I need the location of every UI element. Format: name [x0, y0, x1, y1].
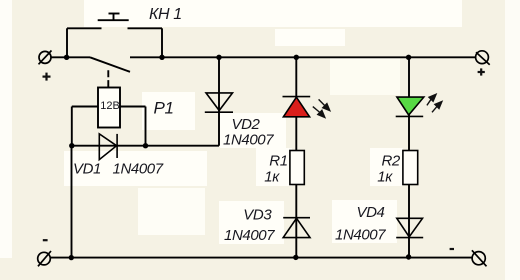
svg-text:VD3: VD3: [243, 206, 272, 223]
svg-text:R2: R2: [382, 152, 401, 169]
svg-text:1N4007: 1N4007: [224, 227, 275, 244]
svg-text:VD2: VD2: [232, 116, 261, 133]
svg-text:VD4: VD4: [357, 204, 385, 221]
svg-text:1N4007: 1N4007: [223, 132, 274, 149]
svg-text:VD1: VD1: [73, 161, 101, 178]
svg-text:1к: 1к: [264, 168, 280, 185]
svg-text:R1: R1: [269, 152, 287, 169]
svg-text:КН 1: КН 1: [149, 6, 182, 23]
svg-text:Р1: Р1: [154, 99, 174, 118]
svg-text:1к: 1к: [377, 168, 393, 185]
svg-text:1N4007: 1N4007: [335, 227, 386, 244]
svg-text:12В: 12В: [100, 100, 120, 112]
svg-text:1N4007: 1N4007: [113, 161, 164, 178]
